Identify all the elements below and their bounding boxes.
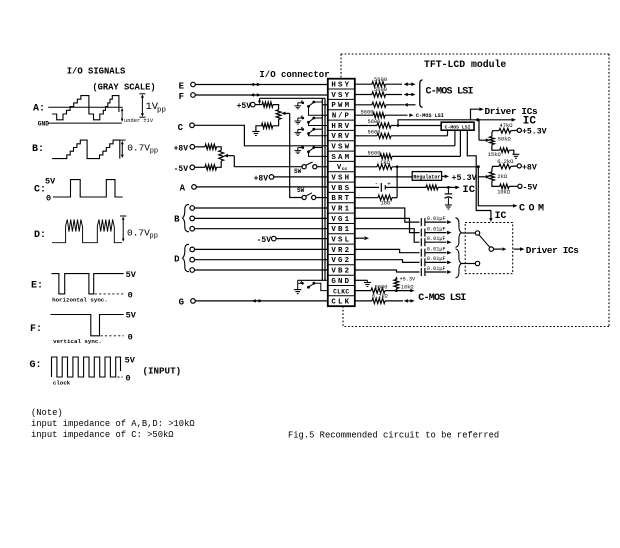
svg-text:+5.3V: +5.3V — [522, 128, 547, 137]
arrow VR2 — [425, 252, 447, 254]
wire +8V to potentiometer — [195, 146, 205, 148]
svg-text:pp: pp — [150, 233, 158, 241]
svg-text:G: G — [179, 298, 184, 308]
IC C-MOS LSI box — [441, 122, 474, 130]
svg-text:under ±1V: under ±1V — [124, 118, 154, 124]
changeover switch contact top — [475, 231, 479, 235]
wire VSW to LSI box — [355, 145, 455, 147]
terminal D2 — [190, 257, 195, 262]
svg-text:VSH: VSH — [331, 175, 351, 183]
arrow IC mid — [455, 186, 459, 190]
waveform G zero dashed — [118, 376, 123, 378]
arrow VR1 — [425, 221, 447, 223]
regulator box — [412, 172, 441, 181]
svg-text:horizontal sync.: horizontal sync. — [52, 296, 108, 303]
resistor HRV — [355, 125, 377, 127]
svg-text:5600: 5600 — [375, 285, 388, 291]
svg-text:0.01µF: 0.01µF — [427, 236, 446, 242]
wire VR1 jog — [355, 208, 420, 222]
svg-text:10kΩ: 10kΩ — [497, 190, 511, 196]
wire to pot top — [217, 147, 222, 151]
svg-text:VRV: VRV — [331, 133, 351, 141]
svg-text:+5.3V: +5.3V — [452, 173, 478, 183]
svg-text:PWM: PWM — [331, 102, 351, 110]
potentiometer 50k — [490, 137, 495, 145]
resistor N/P — [355, 114, 373, 116]
svg-text:B: B — [174, 215, 180, 225]
waveform A GND line — [48, 122, 122, 124]
svg-text:+8V: +8V — [174, 144, 189, 153]
svg-text:0.7V: 0.7V — [127, 143, 150, 154]
terminal +8V out — [517, 164, 521, 168]
svg-text:E:: E: — [31, 281, 43, 292]
svg-text:I/O SIGNALS: I/O SIGNALS — [67, 67, 126, 77]
wire A to VBS — [196, 186, 327, 188]
svg-text:5V: 5V — [45, 177, 56, 187]
waveform B staircase — [52, 140, 120, 159]
svg-text:5600: 5600 — [374, 87, 387, 93]
svg-text:50kΩ: 50kΩ — [498, 137, 512, 143]
svg-text:5600: 5600 — [374, 77, 387, 83]
wire IC top — [478, 119, 512, 121]
bus line 2 — [324, 98, 326, 280]
svg-text:VSY: VSY — [331, 92, 351, 100]
arrow regulator out — [442, 175, 445, 177]
svg-text:E: E — [179, 81, 185, 91]
capacitor 0.01uF VR2 — [420, 249, 422, 257]
brace C-MOS LSI — [420, 80, 423, 108]
ground 15k — [512, 154, 519, 158]
resistor 5600 CLKC — [355, 290, 371, 292]
brace upper RGB — [456, 218, 462, 248]
svg-text:-5V: -5V — [523, 184, 538, 193]
wire VRV up to LSI box — [447, 130, 449, 136]
svg-text:6.2kΩ: 6.2kΩ — [372, 294, 388, 300]
arrow HSY to LSI — [406, 83, 414, 85]
wire Vcc to BRT — [396, 167, 398, 198]
svg-text:GND: GND — [38, 120, 49, 127]
svg-text:CLK: CLK — [331, 299, 351, 307]
arrow N/P to LSI — [409, 113, 413, 117]
wire E to HSY — [195, 84, 327, 86]
svg-text:D:: D: — [34, 230, 46, 241]
svg-text:VB2: VB2 — [331, 268, 351, 276]
wire B1 to VR1 — [195, 207, 328, 209]
potentiometer brightness — [276, 110, 281, 120]
resistor 1k Vcc — [355, 166, 377, 168]
changeover switch contact bottom — [475, 261, 479, 265]
terminal B1 — [190, 206, 195, 211]
arrow PWM from LSI — [404, 103, 408, 107]
wire resistor to ground — [256, 126, 262, 132]
svg-text:5V: 5V — [125, 356, 136, 366]
wire wiper to BRT SW — [290, 113, 302, 197]
resistor +5V series — [262, 102, 273, 107]
wire brace2 to switch — [462, 263, 476, 265]
svg-text:N/P: N/P — [332, 113, 351, 121]
junction Vcc BRT — [396, 165, 399, 168]
arrow Driver ICs top — [479, 107, 483, 111]
svg-text:VG1: VG1 — [331, 216, 351, 224]
svg-text:-: - — [375, 180, 379, 187]
svg-text:+: + — [387, 180, 391, 187]
arrow Driver ICs bottom — [514, 248, 521, 250]
wire to pot bottom — [217, 161, 222, 167]
svg-text:CLKC: CLKC — [333, 288, 349, 295]
wire VR2 jog — [355, 249, 420, 252]
wire D2 to VG2 — [195, 259, 328, 261]
svg-text:HSY: HSY — [331, 82, 351, 90]
svg-text:0.01µF: 0.01µF — [427, 226, 446, 232]
wire LSI box output to selector — [467, 130, 491, 219]
svg-text:VBS: VBS — [331, 185, 351, 193]
arrow VSL — [355, 237, 364, 239]
waveform F zero dashed — [101, 335, 124, 337]
svg-text:5600: 5600 — [361, 109, 374, 115]
waveform A staircase — [52, 96, 119, 120]
svg-text:Driver ICs: Driver ICs — [526, 245, 579, 256]
wire -5V to potentiometer — [195, 166, 205, 168]
wire +5V to resistor — [255, 104, 262, 106]
svg-text:Fig.5 Recommended circuit to b: Fig.5 Recommended circuit to be referred — [288, 431, 499, 441]
svg-text:0: 0 — [128, 290, 133, 300]
svg-text:+5.3V: +5.3V — [400, 276, 416, 282]
svg-text:180: 180 — [381, 201, 391, 207]
resistor +8V series — [205, 144, 217, 149]
svg-text:clock: clock — [53, 380, 71, 387]
waveform D burst wave — [52, 220, 122, 243]
wire to 50k wiper — [478, 120, 480, 140]
svg-text:GND: GND — [331, 278, 351, 286]
svg-text:cc: cc — [342, 167, 348, 172]
resistor 15k — [492, 145, 500, 151]
terminal +5.3V out — [517, 128, 521, 132]
ground GND right — [366, 280, 368, 282]
svg-text:TFT-LCD module: TFT-LCD module — [424, 59, 506, 70]
svg-text:IC: IC — [523, 115, 537, 127]
wire -5V to VSL — [276, 238, 328, 240]
wire VB1 jog — [355, 229, 420, 243]
svg-text:0: 0 — [128, 333, 133, 343]
svg-text:VSL: VSL — [331, 237, 351, 245]
ground symbol GND row — [297, 280, 299, 289]
svg-text:5600: 5600 — [368, 151, 381, 157]
wire VBS to IC — [438, 186, 456, 188]
changeover switch out arrow — [494, 248, 503, 250]
wire brace1 to switch — [462, 232, 476, 234]
arrow VB2 — [425, 271, 447, 273]
svg-text:(Note): (Note) — [31, 408, 63, 418]
wire B2 to VG1 — [195, 217, 328, 219]
svg-text:C-MOS LSI: C-MOS LSI — [426, 87, 474, 98]
arrow VG2 — [425, 261, 447, 263]
resistor 5600 VSY — [355, 94, 372, 96]
switch SW BRT — [302, 195, 306, 199]
wire SAM up to LSI box — [459, 130, 461, 156]
svg-text:0.01µF: 0.01µF — [427, 247, 446, 253]
wire Vcc to COM — [478, 167, 513, 206]
resistor -5V series — [205, 165, 217, 170]
svg-text:SW: SW — [297, 187, 305, 194]
wire C to VSW — [194, 125, 327, 146]
svg-text:pp: pp — [150, 148, 158, 156]
+5V bus top line — [260, 97, 326, 99]
waveform F wave — [51, 315, 124, 336]
svg-text:0: 0 — [46, 194, 51, 204]
junction VBS cap — [447, 186, 450, 189]
svg-text:6.2kΩ: 6.2kΩ — [497, 159, 514, 165]
waveform E zero dashed — [95, 293, 124, 295]
svg-text:C-MOS LSI: C-MOS LSI — [416, 113, 444, 119]
arrow IC top — [512, 118, 516, 122]
junction IC line — [476, 118, 479, 121]
svg-text:47kΩ: 47kΩ — [500, 123, 514, 129]
capacitor 0.01uF VG1 — [420, 229, 422, 237]
svg-text:VR2: VR2 — [331, 247, 351, 255]
resistor 5600 HSY — [355, 83, 372, 85]
svg-text:+8V: +8V — [522, 163, 537, 172]
wire VG1 jog — [355, 218, 420, 232]
resistor 180 BRT — [355, 197, 378, 199]
brace lower RGB — [456, 249, 462, 278]
waveform A 1Vpp measure — [141, 96, 143, 116]
svg-text:VR1: VR1 — [331, 206, 351, 214]
svg-text:VB1: VB1 — [331, 226, 351, 234]
terminal D1 — [190, 247, 195, 252]
svg-text:IC: IC — [462, 184, 475, 196]
svg-text:5V: 5V — [126, 311, 137, 321]
resistor VBS — [426, 185, 438, 190]
svg-text:15kΩ: 15kΩ — [488, 152, 502, 158]
arrow 2k wiper — [478, 176, 486, 178]
svg-text:vertical sync.: vertical sync. — [53, 338, 102, 345]
svg-text:0: 0 — [126, 373, 131, 383]
selector switch CLKC — [298, 282, 302, 284]
arrow COM — [513, 204, 517, 208]
selector switch SAM — [297, 148, 299, 151]
wire VSH to regulator — [355, 176, 412, 178]
svg-text:HRV: HRV — [331, 123, 351, 131]
selector dashed box — [465, 223, 513, 274]
svg-text:(INPUT): (INPUT) — [143, 366, 182, 377]
wire VB2 jog — [355, 270, 420, 272]
pot wiper arrow — [224, 154, 228, 158]
selector switch VRV — [297, 129, 299, 132]
svg-text:2kΩ: 2kΩ — [497, 174, 507, 180]
svg-text:BRT: BRT — [331, 195, 351, 203]
I/O connector box — [328, 79, 355, 306]
arrow VG1 — [425, 232, 447, 234]
svg-text:-5V: -5V — [257, 236, 272, 245]
arrow IC selector — [489, 218, 492, 222]
switch SW Vcc — [302, 165, 306, 169]
wire D3 to VB2 — [195, 269, 328, 271]
arrow 50k wiper — [479, 139, 487, 141]
svg-text:COM: COM — [519, 203, 548, 214]
waveform E wave — [52, 274, 124, 294]
ground symbol pot — [252, 132, 259, 136]
junction HRV — [397, 124, 400, 127]
waveform B 0.7Vpp measure — [120, 139, 126, 141]
TFT-LCD module dashed border — [341, 53, 609, 55]
PWM row stub — [322, 104, 328, 106]
capacitor VBS — [447, 187, 449, 194]
bus line 1 — [321, 98, 323, 280]
svg-text:F:: F: — [30, 324, 42, 335]
svg-text:A: A — [180, 183, 186, 193]
resistor PWM — [355, 104, 372, 106]
waveform G clock wave — [52, 357, 121, 377]
svg-text:pp: pp — [157, 107, 166, 115]
arrow CLKC — [410, 289, 414, 293]
capacitor 0.01uF VB1 — [420, 238, 422, 246]
resistor 6.2k — [492, 166, 499, 172]
wire D1 to VR2 — [195, 248, 328, 250]
resistor 10k pullup — [394, 280, 399, 289]
selector switch HRV — [297, 118, 299, 121]
capacitor 0.01uF VB2 — [420, 268, 422, 276]
resistor 6.2k CLK — [355, 300, 372, 302]
resistor SAM — [355, 155, 380, 157]
svg-text:Regulator: Regulator — [413, 174, 440, 180]
wire wiper to SW — [234, 156, 301, 167]
ground capacitor VBS — [445, 205, 452, 209]
svg-text:C-MOS LSI: C-MOS LSI — [418, 293, 466, 304]
arrow CLK — [406, 300, 413, 302]
svg-text:(GRAY SCALE): (GRAY SCALE) — [92, 83, 155, 93]
potentiometer contrast — [219, 150, 224, 161]
svg-text:SW: SW — [294, 168, 302, 175]
svg-text:VG2: VG2 — [331, 257, 351, 265]
svg-text:C-MOS LSI: C-MOS LSI — [445, 124, 471, 130]
waveform C pulse wave — [53, 180, 123, 197]
resistor 10k — [492, 181, 500, 187]
junction COM Vcc — [477, 165, 480, 168]
capacitor 0.01uF VR1 — [420, 218, 422, 226]
terminal D3 — [190, 268, 195, 273]
svg-text:1kΩ: 1kΩ — [380, 160, 390, 166]
wire VBS — [355, 186, 379, 188]
capacitor 0.01uF VG2 — [420, 258, 422, 266]
svg-text:0.01µF: 0.01µF — [427, 216, 446, 222]
svg-text:IC: IC — [495, 210, 507, 221]
wire G to CLK — [195, 300, 327, 302]
svg-text:10kΩ: 10kΩ — [401, 284, 413, 290]
svg-text:A:: A: — [33, 104, 45, 115]
arrow VSY to LSI — [406, 94, 414, 96]
svg-text:VSW: VSW — [331, 144, 351, 152]
wire to +5V pot — [273, 105, 279, 110]
wire GND row — [298, 279, 328, 281]
svg-text:-5V: -5V — [174, 165, 189, 174]
svg-text:5V: 5V — [126, 270, 137, 280]
terminal B3 — [190, 226, 195, 231]
terminal B2 — [190, 216, 195, 221]
svg-text:C: C — [178, 123, 184, 133]
svg-text:input impedance of A,B,D: >10k: input impedance of A,B,D: >10kΩ — [31, 419, 195, 429]
+5V bus feed arrow — [259, 98, 261, 102]
arrow VB1 — [425, 241, 447, 243]
svg-text:+5V: +5V — [237, 102, 252, 111]
svg-text:I/O connector: I/O connector — [259, 70, 329, 80]
label +5.3V pullup — [395, 276, 398, 279]
svg-text:0.01µF: 0.01µF — [427, 266, 446, 272]
svg-text:0.01µF: 0.01µF — [427, 256, 446, 262]
svg-text:input impedance of C: >50kΩ: input impedance of C: >50kΩ — [31, 430, 174, 440]
changeover switch wiper — [489, 247, 493, 251]
terminal -5V out — [518, 184, 522, 188]
svg-text:SAM: SAM — [331, 154, 351, 162]
svg-text:B:: B: — [32, 144, 44, 155]
waveform A under-1V arrow — [121, 108, 124, 111]
potentiometer 2k — [490, 172, 495, 181]
svg-text:G:: G: — [30, 360, 42, 371]
waveform A center line — [48, 106, 123, 108]
resistor 47k — [492, 131, 499, 137]
+5V pot wiper arrow — [281, 112, 285, 116]
resistor VRV — [355, 135, 377, 137]
svg-text:0.7V: 0.7V — [127, 228, 150, 239]
junction CLKC pullup — [395, 289, 398, 292]
wire GND right — [355, 279, 368, 281]
selector switch N/P — [297, 103, 299, 106]
wire HRV branch up — [398, 120, 479, 126]
wire Driver ICs top — [471, 109, 480, 120]
wire F to VSY — [195, 94, 327, 96]
wire +8V to VSH — [274, 176, 328, 178]
svg-text:+8V: +8V — [254, 174, 269, 183]
svg-text:F: F — [179, 92, 184, 102]
svg-text:D: D — [174, 255, 180, 265]
wire B3 to VB1 — [195, 228, 328, 230]
resistor to ground — [262, 123, 273, 128]
wire pot bottom to resistor — [273, 119, 279, 126]
wire VG2 jog — [355, 260, 420, 263]
waveform D 0.7Vpp measure — [120, 215, 126, 217]
